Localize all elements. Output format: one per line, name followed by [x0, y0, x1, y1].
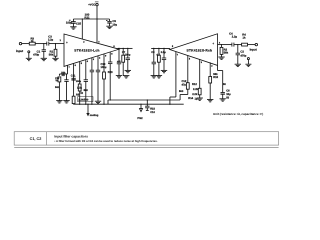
- wire Rch pin5 drop: [209, 62, 211, 76]
- svg-text:+: +: [66, 40, 68, 44]
- ground below R2: [218, 56, 224, 58]
- svg-text:C2: C2: [240, 51, 244, 54]
- resistor R7 zobel Lch: [122, 48, 124, 55]
- capacitor C25 100u (ripple filter): [72, 19, 74, 22]
- svg-text:6: 6: [75, 64, 77, 67]
- svg-text:560: 560: [55, 86, 60, 89]
- NFB box label Lch: [78, 97, 93, 102]
- capacitor C9 10u: [109, 19, 111, 21]
- svg-text:100µ: 100µ: [66, 22, 73, 25]
- ground below C5: [63, 100, 69, 102]
- svg-text:C8: C8: [151, 51, 155, 54]
- ground below C6: [220, 98, 226, 100]
- resistor R2 56k to ground: [221, 45, 223, 48]
- resistor R4 1k series: [242, 43, 248, 46]
- capacitor C8 output network Rch: [153, 48, 155, 62]
- wire C3 to amp input: [49, 43, 64, 45]
- ground below C2: [235, 63, 241, 65]
- capacitor C13 100u: [108, 61, 112, 63]
- svg-text:2.2k/560: 2.2k/560: [78, 98, 88, 101]
- svg-text:2: 2: [83, 41, 85, 44]
- svg-text:56k: 56k: [224, 52, 229, 55]
- polarity mark C9: [106, 19, 108, 21]
- node PG2 junction: [140, 104, 141, 105]
- ground below zobel R Rch: [156, 75, 162, 77]
- wire Lch pin1 drop: [67, 65, 69, 74]
- svg-text:C25: C25: [76, 23, 82, 26]
- wire jog to R9: [59, 73, 67, 75]
- resistor R12: [186, 83, 189, 90]
- svg-text:PG2: PG2: [137, 117, 143, 120]
- svg-text:2.2µ: 2.2µ: [48, 39, 54, 42]
- svg-text:STK4192II-Rch: STK4192II-Rch: [187, 48, 213, 52]
- svg-text:2: 2: [211, 65, 213, 68]
- wire Lch output from apex: [118, 47, 120, 50]
- svg-text:input: input: [250, 48, 257, 52]
- node C1 junction: [43, 43, 44, 44]
- svg-text:Unit (resistance: Ω, capacitan: Unit (resistance: Ω, capacitance: F): [213, 112, 263, 116]
- svg-text:R12: R12: [192, 83, 197, 86]
- wire Rch pin3 drop: [199, 59, 201, 88]
- wire Lch pin8 drop: [109, 52, 111, 62]
- wire Rch pin2 drop: [187, 55, 189, 82]
- node C10 junction: [147, 99, 148, 100]
- svg-text:input: input: [16, 49, 23, 53]
- wire Lch pin2 drop: [73, 63, 75, 96]
- ground below R1: [52, 57, 58, 59]
- input terminal Rch: [255, 43, 257, 45]
- svg-text:100µ: 100µ: [76, 80, 82, 83]
- ground below R10: [207, 99, 213, 101]
- svg-text:+VCC: +VCC: [88, 4, 95, 7]
- input jack ground lug Lch: [28, 51, 30, 53]
- svg-text:2.2k: 2.2k: [77, 86, 83, 89]
- capacitor zobel C Rch: [163, 48, 165, 58]
- svg-text:+: +: [212, 41, 214, 45]
- op-amp U2 STK4192II Rch triangle: [170, 34, 218, 66]
- svg-text:5: 5: [189, 57, 191, 60]
- node rail pin2 junction: [82, 18, 83, 19]
- ground below jack Lch: [26, 57, 32, 59]
- muting stub: [87, 104, 89, 113]
- wire Lch pin7 drop: [103, 54, 105, 72]
- wire pin 2 drop from rail to amp top edge: [81, 19, 83, 39]
- capacitor zobel C Lch: [127, 48, 129, 58]
- ground below C8: [151, 75, 157, 77]
- resistor R1 56k to ground: [55, 44, 57, 50]
- svg-text:5: 5: [81, 62, 83, 65]
- svg-text:1µ: 1µ: [195, 97, 198, 100]
- svg-text:4.7: 4.7: [117, 60, 121, 63]
- svg-text:47µ: 47µ: [182, 84, 187, 87]
- svg-text:470p: 470p: [240, 54, 246, 57]
- resistor R20: [103, 72, 106, 79]
- svg-text:2.2µ: 2.2µ: [232, 36, 238, 39]
- VCC supply terminal: [96, 3, 98, 5]
- capacitor C at pin4: [84, 79, 88, 81]
- node R1 junction: [55, 43, 56, 44]
- svg-text:3: 3: [98, 40, 100, 43]
- svg-text:2: 2: [99, 56, 101, 59]
- wire Rch input: [218, 44, 232, 46]
- svg-text:3: 3: [201, 61, 203, 64]
- capacitor C2 470p to ground: [237, 45, 239, 54]
- wire Lch pin3 drop: [79, 62, 81, 85]
- polarity mark C25: [69, 19, 71, 21]
- wire supply rail: [73, 18, 109, 20]
- wire Lch pin5 drop: [91, 58, 93, 70]
- svg-text:470p: 470p: [33, 54, 39, 57]
- svg-text:100µ: 100µ: [101, 66, 107, 69]
- ground below R9: [56, 100, 62, 102]
- wire Lch pin6 drop: [97, 56, 99, 70]
- resistor R7 2.2k: [78, 84, 81, 91]
- svg-text:2.2k: 2.2k: [192, 93, 198, 96]
- svg-text:1k: 1k: [243, 36, 246, 39]
- ground below Rch pin3: [197, 97, 203, 99]
- capacitor C11: [90, 69, 94, 71]
- ground below C25: [70, 26, 76, 28]
- resistor R5 on ground bus: [72, 96, 75, 103]
- capacitor C5 polarized on pin2 drop: [71, 77, 75, 79]
- svg-text:4: 4: [219, 42, 221, 45]
- input terminal Lch: [19, 42, 21, 44]
- svg-text:1: 1: [60, 39, 62, 42]
- wire Rch pin1 drop: [175, 52, 177, 98]
- resistor zobel R Rch: [158, 48, 160, 55]
- node bus junctions: [79, 104, 80, 105]
- ground below zobel C Rch: [161, 69, 167, 71]
- input jack ground lug Rch: [247, 58, 249, 60]
- svg-text:100µ: 100µ: [125, 53, 131, 56]
- svg-text:10µ: 10µ: [112, 23, 117, 26]
- svg-text:8: 8: [111, 53, 113, 56]
- capacitor C6: [221, 92, 225, 94]
- wire Rch output rail: [151, 47, 170, 49]
- svg-text:560: 560: [179, 90, 184, 93]
- capacitor C4 2.2u series: [231, 43, 233, 47]
- capacitor C5 branch: [67, 73, 68, 75]
- svg-text:7: 7: [69, 66, 71, 69]
- wire Rch bottom corner to C6: [217, 65, 219, 70]
- node rail/VCC junction: [96, 18, 97, 19]
- capacitor C1 470p to ground: [43, 44, 45, 50]
- svg-text:8: 8: [172, 45, 174, 48]
- resistor R14: [198, 88, 201, 95]
- svg-text:7: 7: [177, 54, 179, 57]
- node C2 junction: [237, 44, 238, 45]
- PG2 marker stub: [140, 104, 142, 108]
- op-amp U1 STK4192II Lch triangle: [64, 34, 119, 66]
- svg-text:560: 560: [84, 89, 89, 92]
- node pin4 bus junction: [85, 104, 86, 105]
- muting marker: [87, 113, 89, 115]
- ground below zobel R Lch: [123, 75, 129, 77]
- table border: [14, 132, 278, 148]
- svg-text:4: 4: [87, 60, 89, 63]
- ground below C7: [116, 75, 122, 77]
- resistor R9 56k: [58, 74, 60, 76]
- capacitor C3 2.2u series: [46, 42, 48, 46]
- ground below jack Rch: [245, 63, 251, 65]
- svg-text:3: 3: [93, 58, 95, 61]
- svg-text:2.2k: 2.2k: [193, 88, 199, 91]
- svg-text:R20: R20: [108, 71, 113, 74]
- resistor R3 1k: [29, 42, 35, 45]
- ground below zobel C Lch: [125, 69, 131, 71]
- wire VCC terminal to rail: [96, 6, 98, 19]
- wire input to R3: [22, 43, 30, 45]
- svg-text:R10: R10: [213, 76, 218, 79]
- svg-text:50: 50: [226, 96, 229, 99]
- capacitor at pin6: [96, 69, 100, 71]
- wire lower ground bus: [73, 103, 184, 105]
- node output junctions Rch: [153, 48, 154, 49]
- svg-text:C11: C11: [71, 74, 76, 77]
- wire R3 to C3: [35, 43, 47, 45]
- svg-text:STK4192II-Lch: STK4192II-Lch: [74, 48, 99, 52]
- svg-text:50: 50: [223, 83, 226, 86]
- svg-text:9: 9: [105, 54, 107, 57]
- svg-text:C1, C2: C1, C2: [30, 137, 42, 141]
- resistor R10 56k: [209, 77, 212, 84]
- svg-text:4.7: 4.7: [156, 53, 160, 56]
- node output junctions Lch: [118, 48, 119, 49]
- wire Lch pin4 drop: [85, 60, 87, 80]
- svg-text:56k: 56k: [49, 54, 54, 57]
- svg-text:C10: C10: [150, 111, 155, 114]
- svg-text:R14: R14: [188, 97, 193, 100]
- node Rch pin1 on bus: [169, 104, 170, 105]
- svg-text:• A filter formed with R3 or R: • A filter formed with R3 or R4 can be u…: [54, 140, 157, 143]
- ground below C9: [106, 25, 112, 27]
- wire VCC down to amp pin (Lch Vcc): [96, 19, 98, 43]
- svg-text:muting: muting: [90, 114, 99, 117]
- ground below C1: [41, 57, 47, 59]
- capacitor C7 output network Lch: [118, 48, 120, 62]
- wire upper ground bus: [107, 100, 109, 104]
- svg-text:R21: R21: [84, 15, 90, 19]
- capacitor C10 stub: [146, 100, 148, 106]
- node R2 junction: [221, 44, 222, 45]
- ground below pin6: [95, 100, 101, 102]
- svg-text:Input filter capacitors: Input filter capacitors: [54, 134, 88, 138]
- svg-text:0.1µ: 0.1µ: [161, 51, 167, 54]
